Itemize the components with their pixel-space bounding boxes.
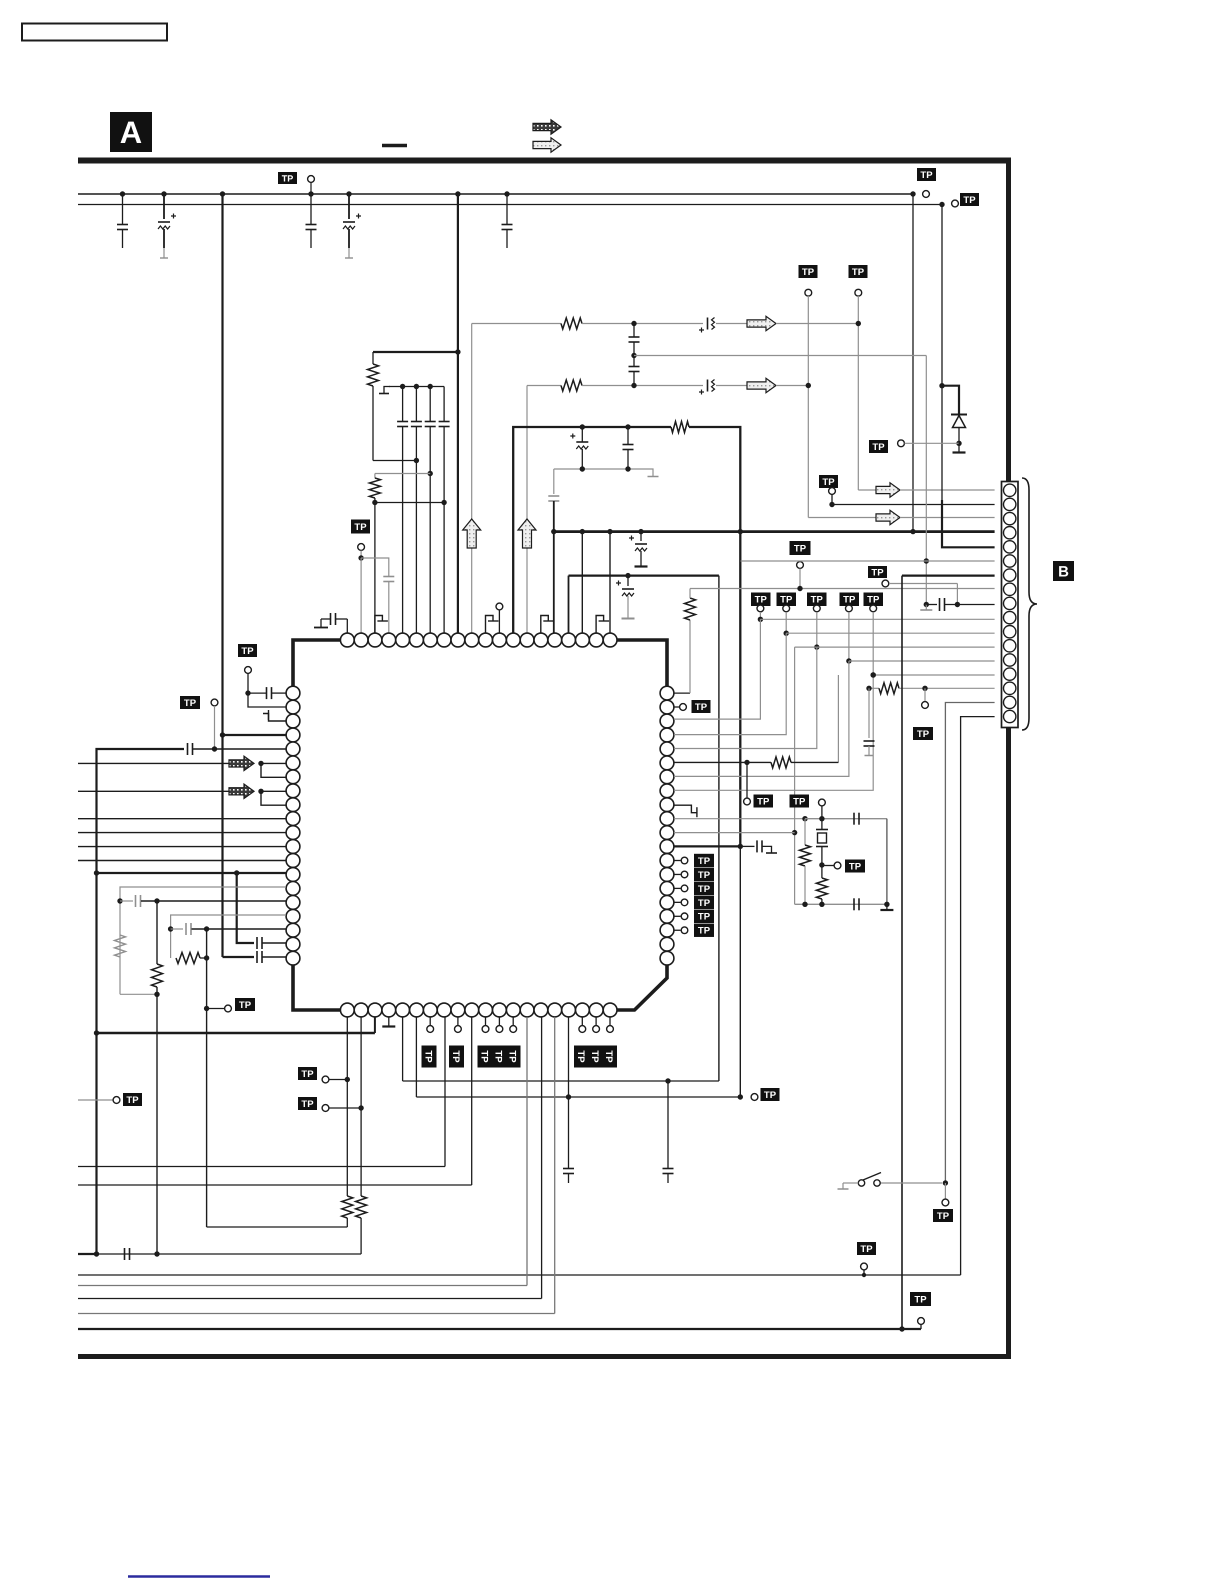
capacitor C28 xyxy=(663,1081,674,1183)
capacitor C5 xyxy=(502,194,513,248)
node pin2col TP xyxy=(358,1105,363,1110)
test point terminal bottom pin9 xyxy=(455,1017,462,1033)
wire R9 bottom rail xyxy=(207,1226,348,1228)
IC U1 top pin 15 xyxy=(534,633,548,647)
svg-text:TP: TP xyxy=(589,1050,600,1063)
svg-text:TP: TP xyxy=(184,698,197,709)
test point TP10 label xyxy=(238,644,257,657)
IC U1 bottom pin 5 xyxy=(396,1003,410,1017)
svg-text:TP: TP xyxy=(698,870,711,881)
test point TP38 terminal xyxy=(674,857,688,864)
IC U1 right pin 8 xyxy=(660,784,674,798)
test point TP30 terminal xyxy=(783,605,790,612)
connector CN1 pin 4 xyxy=(1004,527,1016,539)
capacitor C14 xyxy=(629,356,640,386)
capacitor C23 xyxy=(257,937,286,949)
wire TP6 to arrow xyxy=(858,489,876,491)
wire TP4 elbow xyxy=(361,558,389,577)
IC U1 top pin 17 xyxy=(562,633,576,647)
IC U1 left pin 19 xyxy=(286,937,300,951)
wire TP10 to pin2 xyxy=(248,693,286,707)
test point TP45 terminal xyxy=(942,1183,949,1206)
test point TP40 terminal xyxy=(674,885,688,892)
connector CN1 pin 6 xyxy=(1004,555,1016,567)
test point TP33 label xyxy=(864,593,884,607)
wire TP33 to IC pin8 xyxy=(674,675,873,790)
IC U1 right pin 6 xyxy=(660,756,674,770)
wire to IC pin3 top xyxy=(374,503,376,634)
IC U1 bottom pin 8 xyxy=(437,1003,451,1017)
node diode branch xyxy=(939,383,944,388)
capacitor C22 xyxy=(188,743,287,755)
test point TP23 terminal xyxy=(113,1097,120,1104)
node bus1/VCC1 xyxy=(220,191,225,196)
IC U1 left pin 20 xyxy=(286,951,300,965)
IC U1 right pin 13 xyxy=(660,854,674,868)
IC U1 top pin 13 xyxy=(506,633,520,647)
flow arrow right A8 xyxy=(229,784,254,798)
title block link line (bottom-left) xyxy=(128,1575,270,1578)
test point TP25 terminal xyxy=(918,1318,925,1329)
node C6 column xyxy=(414,458,419,463)
wire left in 5 to pin12 xyxy=(78,846,286,848)
IC U1 bottom pin 13 xyxy=(506,1003,520,1017)
flow arrow right A6 xyxy=(876,483,900,497)
node on bus1 at TP1 xyxy=(308,191,313,196)
svg-text:TP: TP xyxy=(126,1095,139,1106)
svg-text:TP: TP xyxy=(917,729,930,740)
capacitor C19 (polarized) xyxy=(616,576,635,619)
svg-text:TP: TP xyxy=(843,595,856,606)
IC U1 bottom pin 12 xyxy=(493,1003,507,1017)
node TP31 xyxy=(814,644,819,649)
wire TP4 to pin2 xyxy=(360,558,362,634)
wire TP5 vertical xyxy=(807,296,809,518)
wire bus to pin16 top xyxy=(553,532,555,634)
wire net pin10-bottom xyxy=(78,1017,472,1185)
IC U1 top pin 5 xyxy=(396,633,410,647)
node TP30 xyxy=(784,631,789,636)
test point TP41 terminal xyxy=(674,899,688,906)
test point TP41 label xyxy=(694,896,714,909)
test point TP40 label xyxy=(694,882,714,895)
wire bottom net 1 xyxy=(78,1274,961,1276)
capacitor C8 xyxy=(425,387,436,634)
node N2/TP5 xyxy=(806,383,811,388)
IC U1 left pin 17 xyxy=(286,909,300,923)
IC U1 left pin 10 xyxy=(286,812,300,826)
test point TP21 label xyxy=(298,1067,317,1080)
test point TP42 label xyxy=(694,910,714,923)
wire TP32 vertical xyxy=(848,612,850,661)
wire N1 mid xyxy=(582,323,703,325)
wire bottom net 3 xyxy=(78,1017,542,1299)
IC U1 right pin 19 xyxy=(660,937,674,951)
test point terminal bottom pin7 xyxy=(427,1017,434,1033)
wire N2 to arrow xyxy=(716,385,747,387)
test point TP27 label xyxy=(790,541,811,555)
wire TP44 tap xyxy=(889,584,957,605)
wire mid net to right xyxy=(634,355,926,357)
wire conn17 net xyxy=(961,717,995,1275)
svg-text:TP: TP xyxy=(849,861,862,872)
wire to connector pin2 xyxy=(832,504,995,506)
svg-text:TP: TP xyxy=(450,1050,461,1063)
wire N1 to arrow xyxy=(716,323,747,325)
node loop/C19 xyxy=(625,573,630,578)
flow arrow right A2 xyxy=(747,316,776,330)
wire left in 6 to pin13 xyxy=(78,860,286,862)
capacitor C6 xyxy=(397,387,408,634)
IC U1 top pin 16 xyxy=(548,633,562,647)
connector CN1 pin 14 xyxy=(1004,668,1016,680)
signal arrow (light) top xyxy=(533,138,561,152)
wire cap header xyxy=(389,386,444,388)
IC U1 right pin 18 xyxy=(660,923,674,937)
ground at x926 xyxy=(920,605,932,611)
test point TP5 terminal xyxy=(805,289,812,296)
wire branch to left pin9 xyxy=(261,791,286,805)
wire N1 tail xyxy=(776,323,858,325)
test point TP26 terminal xyxy=(861,1263,868,1277)
node B1 pin16 xyxy=(551,529,556,534)
ground flag right pin9 xyxy=(674,805,697,817)
connector CN1 pin 7 xyxy=(1004,569,1016,581)
node conn15 tp xyxy=(922,686,927,691)
test point TP2 label xyxy=(917,168,936,181)
wire TP5 to arrow xyxy=(808,517,876,519)
wire right pin12 thick xyxy=(674,845,740,847)
connector CN1 pin 17 xyxy=(1004,710,1016,722)
node N1 capstack xyxy=(631,321,636,326)
test point TP23 label xyxy=(123,1093,142,1106)
IC U1 bottom pin 9 xyxy=(451,1003,465,1017)
node netc8 tp xyxy=(797,586,802,591)
node rail C15 xyxy=(580,466,585,471)
wire thick vertical x96 xyxy=(95,873,97,1254)
IC U1 left pin 13 xyxy=(286,854,300,868)
test point TP29 label xyxy=(751,593,771,607)
node R7 bottom xyxy=(154,992,159,997)
wire net-c8 grey xyxy=(690,588,995,590)
IC U1 right pin 11 xyxy=(660,826,674,840)
IC U1 left pin 5 xyxy=(286,742,300,756)
flow arrow up A1 xyxy=(463,519,481,548)
test point terminal bottom pin12 xyxy=(496,1017,503,1033)
wire conn15 left xyxy=(869,687,879,689)
test point TP24 terminal xyxy=(751,1094,758,1101)
wire diode elbow xyxy=(942,386,959,414)
wire loop top xyxy=(569,574,719,576)
node B1 tp913 xyxy=(910,529,915,534)
svg-text:TP: TP xyxy=(802,267,815,278)
border right xyxy=(1006,158,1011,1360)
wire conn15 right xyxy=(899,687,995,689)
test point TP43 terminal xyxy=(674,927,688,934)
wire TP32 to connector xyxy=(849,660,995,662)
connector CN1 pin 9 xyxy=(1004,597,1016,609)
IC U1 bottom pin 15 xyxy=(534,1003,548,1017)
node net12 pin11 xyxy=(792,830,797,835)
capacitor C20 at top pin1 xyxy=(314,613,347,634)
svg-text:TP: TP xyxy=(698,856,711,867)
flag at top pin15 xyxy=(541,616,554,634)
test point TP36 terminal xyxy=(819,799,826,819)
node B1 cap xyxy=(638,529,643,534)
capacitor C10 xyxy=(383,577,394,634)
flow arrow right A5 xyxy=(876,510,900,524)
resistor R15 xyxy=(879,683,899,694)
svg-text:TP: TP xyxy=(867,595,880,606)
test point TP34 label xyxy=(754,795,774,808)
resistor R10 xyxy=(356,1017,367,1254)
wire thick stub left xyxy=(78,1253,97,1255)
capacitor C13 xyxy=(629,324,640,356)
IC U1 left pin 4 xyxy=(286,728,300,742)
test point TP39 terminal xyxy=(674,871,688,878)
test point terminal bottom pin18 xyxy=(579,1017,586,1033)
node B1 c16 xyxy=(607,529,612,534)
svg-text:TP: TP xyxy=(575,1050,586,1063)
IC U1 right pin 4 xyxy=(660,728,674,742)
wire thick to connector pin5 xyxy=(942,500,995,547)
IC U1 right pin 16 xyxy=(660,896,674,910)
test point TP5 label xyxy=(799,265,818,278)
wire TP29 to IC pin3 xyxy=(674,619,761,719)
IC U1 left pin 9 xyxy=(286,798,300,812)
node x740 bottom xyxy=(738,1094,743,1099)
IC U1 top pin 8 xyxy=(437,633,451,647)
flow arrow up A3 xyxy=(518,519,536,548)
node T1 a xyxy=(580,424,585,429)
wire to connector pin3 xyxy=(900,517,995,519)
IC U1 right pin 1 xyxy=(660,686,674,700)
svg-text:TP: TP xyxy=(695,702,708,713)
svg-text:TP: TP xyxy=(698,884,711,895)
test point TP44 label xyxy=(868,566,887,578)
wire TP30 vertical xyxy=(785,612,787,633)
test point TP11 terminal xyxy=(211,699,218,706)
IC U1 left pin 3 xyxy=(286,714,300,728)
node switch net xyxy=(943,1180,948,1185)
node on bus1 at C4 xyxy=(346,191,351,196)
capacitor C7 xyxy=(411,387,422,634)
node C26 right xyxy=(204,926,209,931)
wire R2 bottom xyxy=(375,502,444,504)
IC U1 left pin 11 xyxy=(286,826,300,840)
wire x740 lower xyxy=(739,846,741,1097)
wire thick x236 down xyxy=(237,873,254,943)
flag at top pin3 xyxy=(375,616,388,634)
IC U1 top pin 2 xyxy=(354,633,368,647)
wire left in 2 xyxy=(78,790,229,792)
capacitor C9 xyxy=(439,387,450,634)
resistor R8 xyxy=(176,953,200,964)
ground flag mid rail xyxy=(648,469,659,477)
wire net pin6-bottom xyxy=(416,1017,740,1097)
capacitor C31 xyxy=(854,898,859,910)
test point TP12 label xyxy=(235,998,255,1011)
IC U1 bottom pin 14 xyxy=(520,1003,534,1017)
connector CN1 pin 12 xyxy=(1004,640,1016,652)
wire pin17-bottom down xyxy=(568,1017,570,1097)
wire connector6 line xyxy=(741,560,995,562)
IC U1 top pin 9 xyxy=(451,633,465,647)
IC U1 left pin 7 xyxy=(286,770,300,784)
node capstack mid xyxy=(631,353,636,358)
wire TP7 down xyxy=(831,495,833,505)
crystal Y1 xyxy=(816,819,828,865)
capacitor C4 (electrolytic) xyxy=(343,194,361,258)
node TP11 join xyxy=(212,746,217,751)
flow arrow right A4 xyxy=(747,378,776,392)
IC U1 right pin 12 xyxy=(660,840,674,854)
capacitor C18 (polarized) xyxy=(629,532,648,567)
wire TP23 lead xyxy=(78,1099,113,1101)
test point TP15 TP16 TP17 labels (rotated) xyxy=(478,1046,521,1068)
wire net12 corner xyxy=(794,647,796,904)
svg-text:TP: TP xyxy=(852,267,865,278)
IC U1 bottom pin 7 xyxy=(423,1003,437,1017)
node TP12 branch xyxy=(204,1006,209,1011)
wire TP33 vertical xyxy=(872,612,874,675)
test point TP31 label xyxy=(807,593,827,607)
wire vertical VCC2 (x=458) xyxy=(457,194,459,634)
test point TP6 label xyxy=(849,265,868,278)
resistor R14 xyxy=(816,865,827,904)
svg-text:TP: TP xyxy=(963,195,976,206)
IC U1 left pin 15 xyxy=(286,882,300,896)
wire left in 3 to pin10 xyxy=(78,818,286,820)
wire R10 bottom rail xyxy=(97,1253,362,1255)
node R8 right xyxy=(204,955,209,960)
capacitor C26 xyxy=(171,923,286,935)
wire N2 mid xyxy=(582,385,703,387)
node pin1col TP xyxy=(345,1077,350,1082)
test point TP27 terminal xyxy=(797,562,804,589)
test point TP32 label xyxy=(840,593,860,607)
test point TP13 label (rotated) xyxy=(422,1046,437,1068)
test point TP33 terminal xyxy=(870,605,877,612)
test point TP22 terminal xyxy=(322,1105,361,1112)
IC U1 top pin 4 xyxy=(382,633,396,647)
test point TP37 label xyxy=(845,860,865,873)
wire left in 1 xyxy=(78,762,229,764)
IC U1 right pin 5 xyxy=(660,742,674,756)
IC U1 bottom pin 4 xyxy=(382,1003,396,1017)
test point TP34 terminal xyxy=(744,762,751,804)
resistor R3 xyxy=(561,318,582,329)
svg-text:TP: TP xyxy=(764,1090,777,1101)
IC U1 bottom pin 1 xyxy=(340,1003,354,1017)
node pin18 net left xyxy=(168,926,173,931)
test point terminal bottom pin11 xyxy=(482,1017,489,1033)
wire net pin8-bottom xyxy=(78,1017,445,1167)
IC U1 right pin 10 xyxy=(660,812,674,826)
test point TP44 terminal xyxy=(882,580,889,587)
wire TP29 vertical xyxy=(759,612,761,619)
IC U1 left pin 2 xyxy=(286,700,300,714)
IC U1 top pin 10 xyxy=(465,633,479,647)
capacitor C32 xyxy=(740,840,777,853)
IC U1 top pin 11 xyxy=(479,633,493,647)
wire pin10-up xyxy=(471,324,473,634)
IC U1 right pin 15 xyxy=(660,882,674,896)
IC U1 left pin 6 xyxy=(286,756,300,770)
test point TP30 label xyxy=(777,593,797,607)
wire right pin11 xyxy=(674,832,795,834)
node header c6 xyxy=(400,384,405,389)
test point terminal bottom pin19 xyxy=(593,1017,600,1033)
wire right pin6 xyxy=(674,761,747,763)
node TP33 xyxy=(871,672,876,677)
wire thick bottom bus xyxy=(97,1017,375,1033)
test point terminal bottom pin13 xyxy=(510,1017,517,1033)
capacitor C34 xyxy=(864,688,875,755)
connector CN1 body xyxy=(1002,482,1019,728)
node on bus1 at C2 xyxy=(161,191,166,196)
IC U1 top pin 12 xyxy=(493,633,507,647)
svg-text:TP: TP xyxy=(239,1000,252,1011)
test point TP38 label xyxy=(694,854,714,867)
resistor R1 xyxy=(368,352,379,461)
IC U1 bottom pin 6 xyxy=(410,1003,424,1017)
ground at diode xyxy=(953,443,966,452)
section label A xyxy=(110,112,152,152)
IC U1 right pin 2 xyxy=(660,700,674,714)
wire R8 right xyxy=(200,957,207,959)
test point TP14 label (rotated) xyxy=(449,1046,464,1068)
test point TP6 terminal xyxy=(855,289,862,296)
test point TP25 label xyxy=(910,1292,931,1306)
wire VCC1 to left pin4 xyxy=(223,734,287,736)
IC U1 right pin 7 xyxy=(660,770,674,784)
node xtal bot right xyxy=(884,902,889,907)
node TP4 xyxy=(358,555,363,560)
wire TP29 to connector xyxy=(760,618,994,620)
node xtal rail pin10 xyxy=(802,816,807,821)
ground at bottom pin4 xyxy=(382,1017,395,1027)
capacitor C21 xyxy=(248,687,286,699)
IC U1 top pin 3 xyxy=(368,633,382,647)
node diode anode xyxy=(956,441,961,446)
wire N2 tail xyxy=(776,385,808,387)
switch S1 xyxy=(838,1173,943,1190)
svg-text:TP: TP xyxy=(603,1050,614,1063)
node TP44 join xyxy=(955,602,960,607)
wire net12 left ext xyxy=(795,646,817,648)
node xtal mid xyxy=(819,862,824,867)
node thick x236 xyxy=(234,870,239,875)
capacitor C15 (polarized) xyxy=(570,427,588,469)
wire TP33 to connector xyxy=(873,674,994,676)
svg-text:TP: TP xyxy=(698,926,711,937)
IC U1 bottom pin 16 xyxy=(548,1003,562,1017)
test point TP4 label xyxy=(351,520,370,534)
capacitor C29 xyxy=(563,1097,574,1183)
wire left in 4 to pin11 xyxy=(78,832,286,834)
resistor R7 xyxy=(152,901,163,1254)
resistor R6 xyxy=(115,935,126,957)
svg-text:TP: TP xyxy=(755,595,768,606)
svg-text:TP: TP xyxy=(937,1211,950,1222)
wire R2 top xyxy=(375,473,430,475)
wire bus to pin18 top xyxy=(581,532,583,634)
connector CN1 pin 3 xyxy=(1004,512,1016,524)
test point TP39 label xyxy=(694,868,714,881)
wire bottom net 4 xyxy=(78,1017,555,1314)
connector brace xyxy=(1022,478,1037,730)
